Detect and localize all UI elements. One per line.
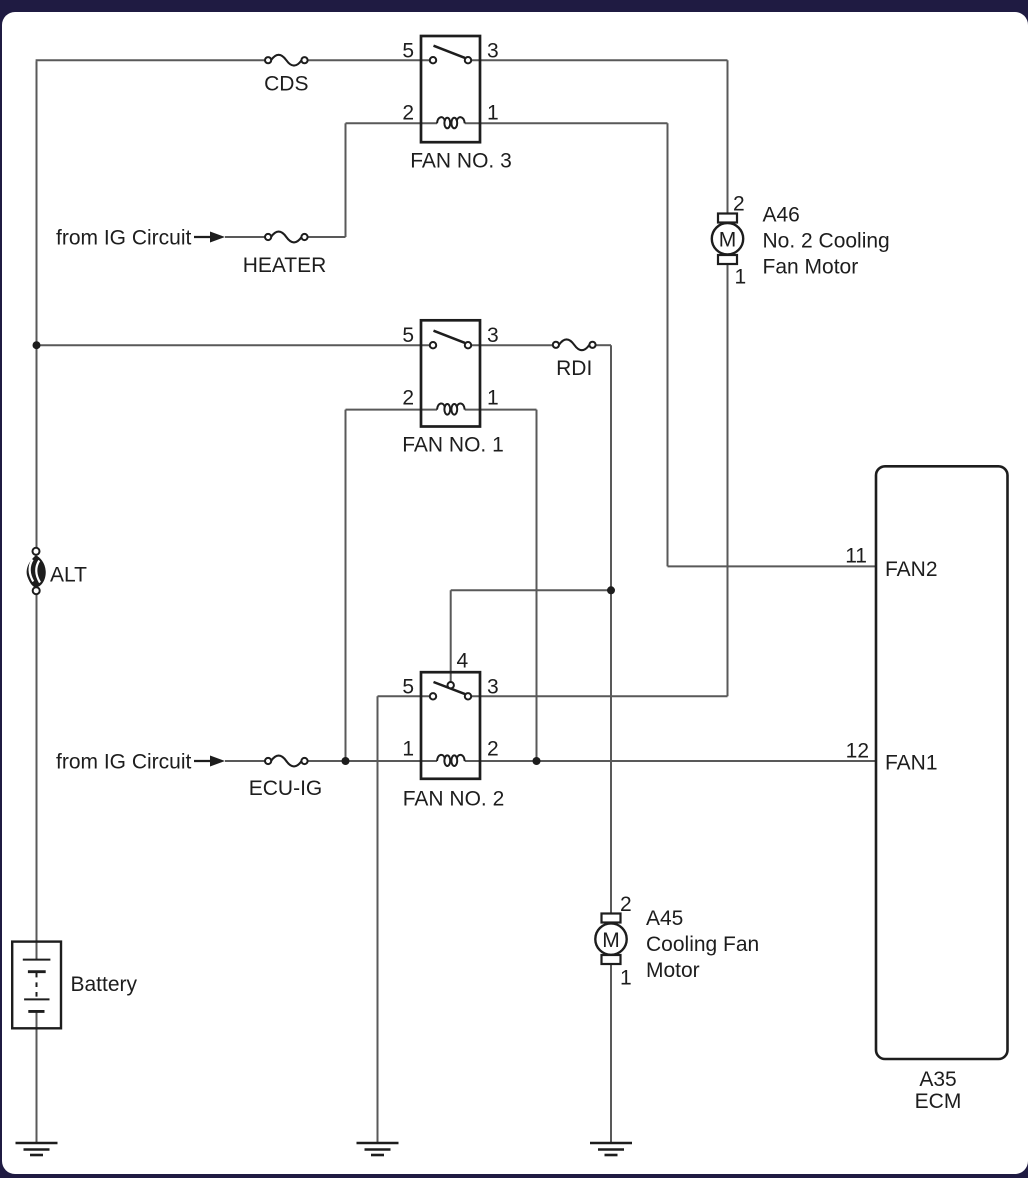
svg-text:from IG Circuit: from IG Circuit	[56, 751, 192, 774]
svg-text:FAN NO. 1: FAN NO. 1	[402, 434, 504, 457]
wire HEATER row from arrow to fuse	[225, 236, 265, 238]
fusible link ALT	[27, 548, 46, 594]
wire FAN1 pin2 vertical to ECU-IG row	[345, 410, 347, 761]
wire HEATER vertical riser	[345, 123, 347, 237]
svg-text:A45: A45	[646, 907, 683, 930]
svg-text:2: 2	[620, 893, 632, 916]
svg-text:HEATER: HEATER	[243, 254, 327, 277]
svg-text:1: 1	[402, 738, 414, 761]
svg-text:A46: A46	[763, 204, 800, 227]
svg-text:1: 1	[735, 266, 747, 289]
relay FAN NO.3 box	[421, 36, 480, 142]
arrow IG feed (top)	[194, 232, 225, 243]
wire FAN NO.2 pin 5 to ground column	[378, 695, 431, 697]
junction dot node ECU-IG / FAN1 coil pin2	[342, 757, 350, 765]
svg-text:FAN NO. 3: FAN NO. 3	[410, 150, 512, 173]
svg-text:2: 2	[487, 738, 499, 761]
svg-text:A35: A35	[919, 1068, 956, 1091]
wire CDS fuse to relay 3 pin5 contact	[308, 59, 430, 61]
relay FAN NO.1 coil	[437, 403, 465, 414]
relay FAN NO.3 switch blade	[434, 46, 466, 58]
svg-text:2: 2	[733, 193, 745, 216]
svg-text:Fan Motor: Fan Motor	[763, 255, 859, 278]
relay FAN NO.2 box	[421, 672, 480, 779]
fuse HEATER	[265, 232, 308, 243]
relay FAN NO.1 switch blade	[434, 331, 466, 343]
arrow IG feed (bottom)	[194, 756, 225, 767]
label A45 Cooling Fan Motor	[646, 907, 759, 982]
wire FAN NO.1 pin 5 row	[37, 344, 431, 346]
relay FAN NO.2 switch blade	[434, 682, 467, 694]
svg-text:Motor: Motor	[646, 959, 700, 982]
label A46 No. 2 Cooling Fan Motor	[763, 204, 890, 279]
svg-text:Cooling Fan: Cooling Fan	[646, 933, 759, 956]
svg-text:2: 2	[402, 102, 414, 125]
fuse CDS	[265, 55, 308, 66]
wire FAN NO.2 pin 3 to A46 column	[471, 695, 728, 697]
relay FAN NO.3 contact pin 3	[465, 57, 471, 63]
junction dot node B+ / FAN NO.1 pin5	[33, 341, 41, 349]
svg-text:2: 2	[402, 387, 414, 410]
wire main B+ left vertical lower (ALT to battery)	[36, 594, 38, 960]
wire FAN NO.3 pin 3 to A46 motor column	[471, 59, 728, 61]
wire RDI column vertical to ground	[610, 345, 612, 1143]
relay FAN NO.1 box	[421, 320, 480, 426]
svg-text:4: 4	[457, 650, 469, 673]
wire relay FAN NO.2 pin 4 vertical	[450, 590, 452, 682]
svg-text:5: 5	[402, 324, 414, 347]
wire FAN NO.3 pin 2 to HEATER corner	[346, 122, 438, 124]
svg-text:FAN1: FAN1	[885, 752, 938, 775]
svg-text:RDI: RDI	[556, 357, 592, 380]
svg-text:CDS: CDS	[264, 73, 308, 96]
wire FAN NO.1 pin 1 out	[465, 409, 537, 411]
wire FAN3 pin1 vertical down	[667, 123, 669, 566]
ground (battery)	[16, 1143, 58, 1155]
relay FAN NO.1 contact pin 3	[465, 342, 471, 348]
fuse ECU-IG	[265, 756, 308, 767]
ground (relay2 pin5)	[357, 1143, 399, 1155]
ground (A45 motor)	[590, 1143, 632, 1155]
svg-text:12: 12	[846, 740, 869, 763]
svg-text:FAN2: FAN2	[885, 558, 938, 581]
relay FAN NO.1 contact pin 5	[430, 342, 436, 348]
wire FAN NO.1 pin 2 out	[346, 409, 438, 411]
svg-text:M: M	[602, 929, 620, 952]
wire FAN1 pin1 vertical to ECU-IG row	[536, 410, 538, 761]
wire FAN2 ECM row (pin 11)	[668, 565, 877, 567]
wire main B+ left vertical (battery to CDS row)	[36, 61, 38, 548]
wire FAN2 pin5 ground vertical	[377, 696, 379, 1143]
junction dot node RDI / relay2 pin4 branch	[607, 586, 615, 594]
svg-text:ECM: ECM	[915, 1090, 962, 1113]
svg-text:3: 3	[487, 676, 499, 699]
svg-text:5: 5	[402, 676, 414, 699]
wire CDS row horizontal (B+ to FAN NO.3 pin 5)	[36, 59, 265, 61]
svg-text:Battery: Battery	[71, 973, 138, 996]
wire ECU-IG fuse to FAN NO.2 pin 1	[308, 760, 437, 762]
relay FAN NO.2 contact pin 5	[430, 693, 436, 699]
relay FAN NO.2 contact pin 3	[465, 693, 471, 699]
wire battery negative to ground	[36, 1011, 38, 1143]
svg-text:3: 3	[487, 324, 499, 347]
svg-text:1: 1	[620, 967, 632, 990]
svg-text:ECU-IG: ECU-IG	[249, 777, 323, 800]
relay FAN NO.3 coil	[437, 117, 465, 128]
svg-text:M: M	[719, 229, 737, 252]
wire FAN NO.2 pin 2 to ECM pin 12	[465, 760, 876, 762]
relay FAN NO.3 contact pin 5	[430, 57, 436, 63]
svg-text:3: 3	[487, 40, 499, 63]
wire A46 motor column vertical	[727, 60, 729, 696]
svg-text:No. 2 Cooling: No. 2 Cooling	[763, 230, 890, 253]
motor A45	[595, 914, 626, 965]
junction dot node FAN1 coil pin1 / FAN1 output	[533, 757, 541, 765]
svg-text:11: 11	[845, 545, 867, 568]
wire ECU-IG row from arrow to fuse	[225, 760, 265, 762]
wire relay FAN NO.2 pin 4 branch horizontal	[451, 589, 611, 591]
battery	[12, 942, 61, 1029]
motor A46	[712, 214, 743, 265]
svg-text:FAN NO. 2: FAN NO. 2	[403, 788, 505, 811]
ECM A35 box	[876, 466, 1008, 1059]
svg-text:5: 5	[402, 40, 414, 63]
wire HEATER fuse to riser corner	[308, 236, 346, 238]
svg-text:from IG Circuit: from IG Circuit	[56, 227, 192, 250]
svg-text:1: 1	[487, 387, 499, 410]
fuse RDI	[553, 339, 596, 350]
wire FAN NO.1 pin 3 to RDI fuse	[471, 344, 553, 346]
svg-text:ALT: ALT	[50, 564, 87, 587]
svg-text:1: 1	[487, 102, 499, 125]
relay FAN NO.2 coil	[437, 755, 465, 766]
wire FAN NO.3 pin 1 out	[465, 122, 668, 124]
relay FAN NO.2 contact pin 4	[448, 682, 454, 688]
wire RDI fuse to corner	[595, 344, 611, 346]
